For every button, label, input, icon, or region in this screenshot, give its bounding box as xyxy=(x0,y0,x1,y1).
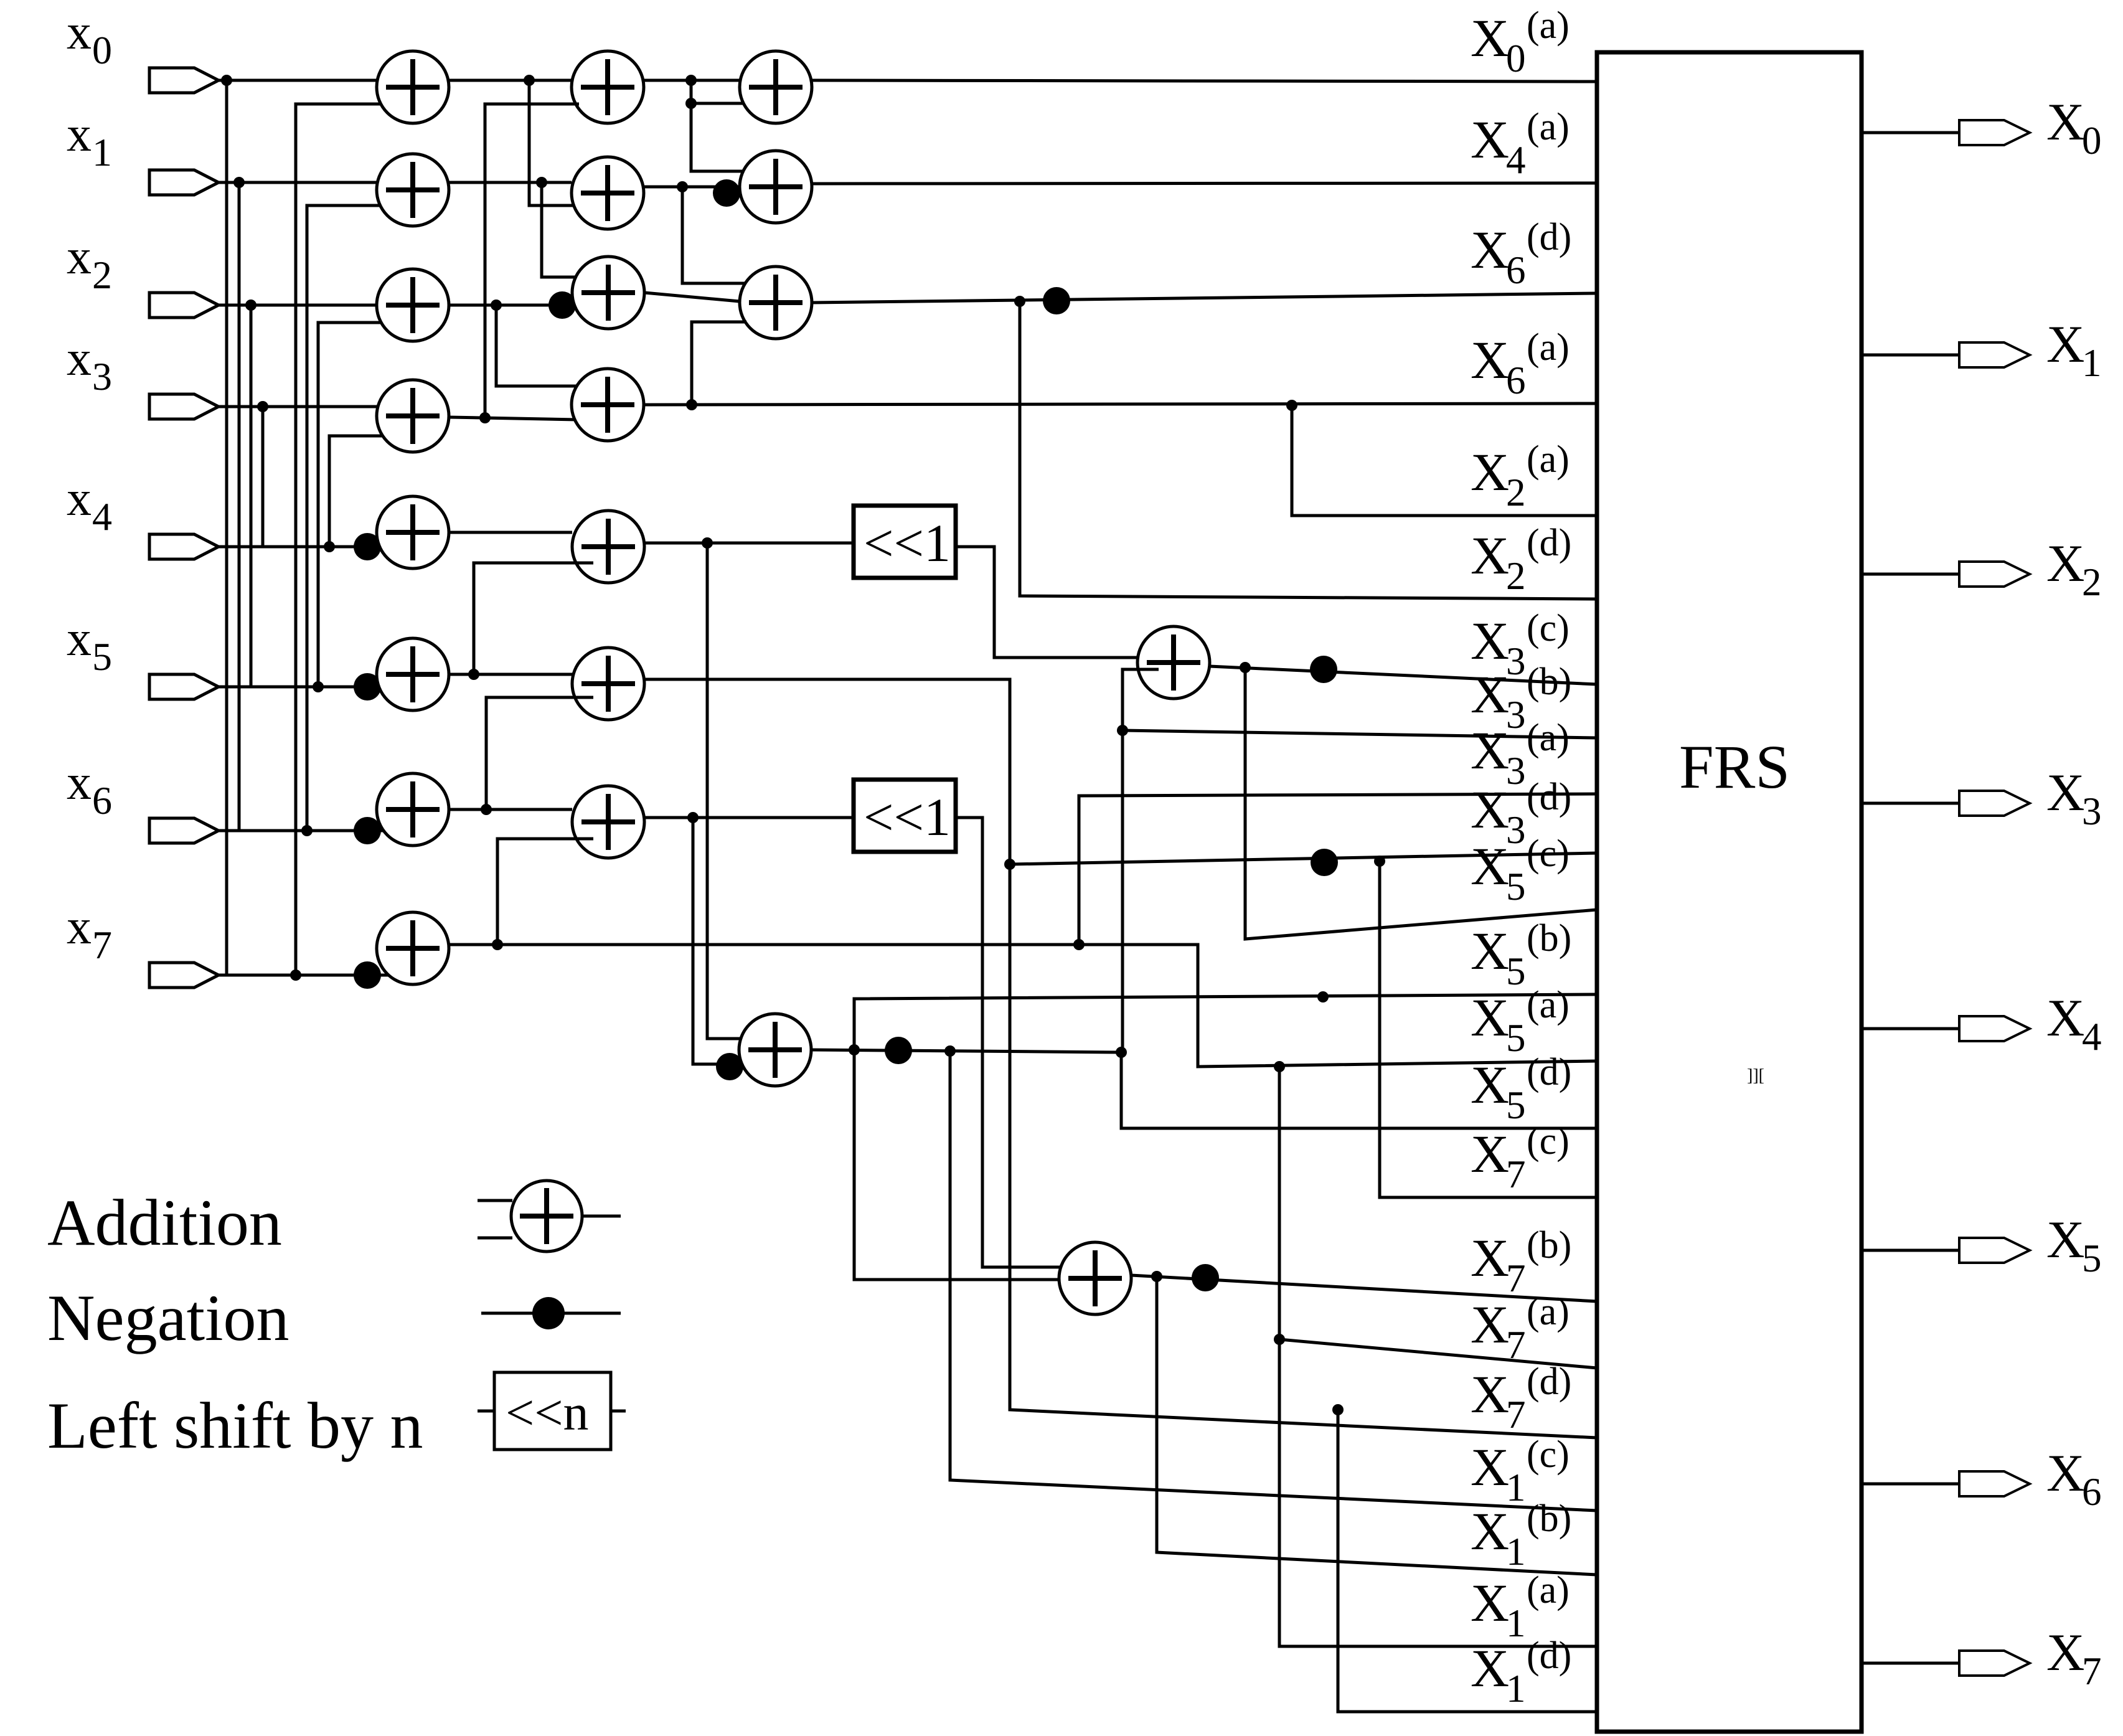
svg-text:5: 5 xyxy=(1506,1083,1526,1127)
node tap x4 xyxy=(324,541,335,552)
svg-text:(d): (d) xyxy=(1527,216,1571,258)
input arrow x1 xyxy=(149,170,219,195)
svg-text:X: X xyxy=(2046,93,2084,151)
wire row x1 xyxy=(219,181,380,184)
label X_5^(b) xyxy=(1471,917,1571,993)
wire Uc to X1b xyxy=(1157,1276,1597,1575)
adder A13 xyxy=(377,380,449,452)
svg-text:0: 0 xyxy=(1506,37,1526,80)
label x2 xyxy=(67,230,112,297)
wire row x7 xyxy=(219,974,380,977)
svg-text:(a): (a) xyxy=(1527,1291,1570,1333)
svg-text:(a): (a) xyxy=(1527,438,1570,481)
input arrow x7 xyxy=(149,963,219,988)
svg-text:x: x xyxy=(67,611,92,666)
svg-text:X: X xyxy=(1471,1295,1509,1354)
node tap x1 xyxy=(233,177,245,188)
adder Ua xyxy=(1137,626,1210,699)
output arrow X3 xyxy=(1959,791,2030,816)
svg-text:X: X xyxy=(2046,1444,2084,1502)
svg-text:Left shift by n: Left shift by n xyxy=(47,1389,423,1462)
wire a0 down to A21 xyxy=(529,80,593,205)
label X7 xyxy=(2046,1623,2102,1693)
output arrow X1 xyxy=(1959,342,2030,367)
label x4 xyxy=(67,471,112,539)
svg-text:(b): (b) xyxy=(1527,917,1571,960)
svg-text:X: X xyxy=(1471,1364,1509,1424)
node A25 d1 xyxy=(1004,859,1015,870)
svg-text:(c): (c) xyxy=(1527,607,1570,649)
svg-text:(a): (a) xyxy=(1527,326,1570,369)
adder A10 xyxy=(377,51,449,123)
svg-text:X: X xyxy=(1471,1638,1509,1698)
label FRS xyxy=(1679,732,1790,801)
wire output X1 xyxy=(1862,354,1959,357)
svg-text:0: 0 xyxy=(92,28,112,72)
svg-text:2: 2 xyxy=(1506,554,1526,598)
wire to X1d xyxy=(1338,1410,1597,1712)
adder A16 xyxy=(377,773,449,846)
legend shift box xyxy=(478,1372,626,1450)
svg-text:7: 7 xyxy=(2082,1649,2102,1693)
wire A14 out xyxy=(449,531,572,534)
node A15 out xyxy=(468,669,479,680)
node X3d branch xyxy=(1374,856,1385,867)
wire A12 out xyxy=(449,304,572,307)
legend label Negation xyxy=(47,1281,289,1354)
wire x4 to adder row x3 xyxy=(329,436,400,547)
wire b0 to A31 xyxy=(691,103,757,171)
input arrow x3 xyxy=(149,394,219,419)
wire b1 down to A22 xyxy=(542,182,590,277)
node A16 out xyxy=(481,804,492,815)
label X_3^(b) xyxy=(1471,661,1571,737)
node A21 out xyxy=(677,181,688,192)
shift box S2 xyxy=(854,780,956,852)
adder A30 xyxy=(740,51,812,123)
label X_1^(b) xyxy=(1471,1498,1571,1573)
adder A12 xyxy=(377,269,449,341)
adder A26 xyxy=(572,786,644,858)
output arrow X5 xyxy=(1959,1238,2030,1263)
negation dot X6d xyxy=(1043,287,1070,314)
svg-text:2: 2 xyxy=(2082,560,2102,604)
node tap x7 xyxy=(290,969,301,981)
negation dot Ub out xyxy=(885,1037,912,1064)
svg-text:x: x xyxy=(67,900,92,955)
wire A11 out xyxy=(449,181,572,184)
label X_7^(c) xyxy=(1471,1120,1570,1196)
svg-text:(d): (d) xyxy=(1527,522,1571,564)
legend label Addition xyxy=(47,1186,282,1259)
svg-text:X: X xyxy=(1471,1124,1509,1184)
adder Uc xyxy=(1059,1242,1131,1314)
svg-text:(d): (d) xyxy=(1527,1361,1571,1403)
svg-text:X: X xyxy=(1471,110,1509,169)
wire a7 up to A26 xyxy=(497,839,593,945)
wire row x2 xyxy=(219,304,380,307)
adder A23 xyxy=(572,369,644,441)
wire x7 to adder row x0 xyxy=(296,104,400,975)
svg-text:7: 7 xyxy=(1506,1153,1526,1196)
wire Ub out xyxy=(811,1050,1597,1128)
label X_1^(a) xyxy=(1471,1569,1570,1645)
svg-text:3: 3 xyxy=(92,354,112,399)
svg-text:2: 2 xyxy=(92,253,112,297)
wire A13 out xyxy=(449,417,578,420)
wire x1 to row x6 xyxy=(238,182,241,831)
wire row x3 xyxy=(219,405,380,408)
svg-text:(d): (d) xyxy=(1527,1635,1571,1677)
wire b1 down to A32 xyxy=(682,187,757,283)
wire A25 out xyxy=(644,679,1597,1438)
wire Ub to Uc xyxy=(854,1050,1061,1280)
svg-text:X: X xyxy=(1471,526,1509,585)
node tap x2 xyxy=(245,300,257,311)
svg-text:7: 7 xyxy=(1506,1393,1526,1436)
wire b0 to A30 xyxy=(691,80,757,103)
svg-text:5: 5 xyxy=(92,634,112,679)
svg-text:X: X xyxy=(1471,921,1509,981)
wire output X4 xyxy=(1862,1027,1959,1031)
svg-text:(a): (a) xyxy=(1527,1569,1570,1611)
wire A24 out xyxy=(644,542,854,545)
label X_3^(c) xyxy=(1471,607,1570,683)
svg-text:X: X xyxy=(2046,1210,2084,1269)
label X_2^(a) xyxy=(1471,438,1570,514)
wire A17 out xyxy=(449,945,1597,1067)
node X3a branch xyxy=(1073,939,1085,950)
svg-text:2: 2 xyxy=(1506,471,1526,514)
label x1 xyxy=(67,107,112,174)
wire X6d xyxy=(812,293,1597,303)
svg-text:(b): (b) xyxy=(1527,1498,1571,1540)
label x0 xyxy=(67,5,112,72)
wire output X0 xyxy=(1862,131,1959,134)
output arrow X2 xyxy=(1959,562,2030,587)
wire X4a xyxy=(812,183,1597,184)
node A12 out xyxy=(491,300,502,311)
node Ub out xyxy=(849,1044,860,1055)
label X_1^(d) xyxy=(1471,1635,1571,1710)
wire a2 down to A23 xyxy=(496,305,592,386)
negation dot row x5 xyxy=(354,673,381,701)
label x7 xyxy=(67,900,112,967)
wire A26 out xyxy=(644,816,854,819)
wire A16 out xyxy=(449,808,572,811)
wire x5 to adder row x2 xyxy=(318,323,400,687)
label x5 xyxy=(67,611,112,679)
label X_1^(c) xyxy=(1471,1433,1570,1509)
label X_6^(d) xyxy=(1471,216,1571,292)
legend negation symbol xyxy=(481,1297,621,1329)
input arrow x2 xyxy=(149,293,219,318)
adder A17 xyxy=(377,912,449,984)
wire output X5 xyxy=(1862,1249,1959,1252)
svg-text:6: 6 xyxy=(1506,248,1526,292)
svg-text:(c): (c) xyxy=(1527,833,1570,875)
node b0 branch xyxy=(685,98,697,109)
svg-text:X: X xyxy=(1471,1501,1509,1561)
output arrow X7 xyxy=(1959,1651,2030,1676)
svg-text:X: X xyxy=(1471,664,1509,724)
svg-text:X: X xyxy=(1471,1437,1509,1497)
label X0 xyxy=(2046,93,2102,163)
adder A15 xyxy=(377,638,449,710)
svg-text:7: 7 xyxy=(1506,1257,1526,1300)
wire to X2d xyxy=(1020,301,1597,599)
wire to X3a xyxy=(1079,794,1597,945)
svg-text:X: X xyxy=(1471,1573,1509,1633)
wire S2 out xyxy=(956,818,1081,1267)
svg-text:5: 5 xyxy=(1506,1016,1526,1060)
svg-text:X: X xyxy=(1471,1055,1509,1115)
adder A21 xyxy=(572,157,644,229)
svg-text:(d): (d) xyxy=(1527,776,1571,818)
output arrow X6 xyxy=(1959,1471,2030,1496)
node tap x3 xyxy=(257,401,268,412)
svg-text:X: X xyxy=(1471,1228,1509,1288)
wire A20 out xyxy=(644,79,740,82)
svg-text:X: X xyxy=(2046,1623,2084,1682)
svg-text:x: x xyxy=(67,331,92,386)
negation dot row x7 xyxy=(354,961,381,989)
svg-text:6: 6 xyxy=(92,778,112,823)
svg-text:X: X xyxy=(1471,988,1509,1047)
input arrow x5 xyxy=(149,674,219,699)
label X_7^(d) xyxy=(1471,1361,1571,1436)
negation dot X3c xyxy=(1310,656,1337,683)
wire A21 out xyxy=(644,186,740,189)
svg-text:5: 5 xyxy=(2082,1237,2102,1280)
svg-text:1: 1 xyxy=(92,130,112,174)
svg-text:0: 0 xyxy=(2082,119,2102,163)
svg-text:(c): (c) xyxy=(1527,1120,1570,1163)
node Ua out xyxy=(1240,662,1251,673)
svg-text:1: 1 xyxy=(1506,1530,1526,1573)
svg-text:X: X xyxy=(1471,780,1509,839)
adder A14 xyxy=(377,496,449,568)
negation dot Ub in xyxy=(716,1053,743,1080)
node A24 out xyxy=(702,537,713,549)
svg-text:5: 5 xyxy=(1506,950,1526,993)
legend adder symbol xyxy=(478,1181,621,1252)
node A11 out xyxy=(536,177,547,188)
wire b3 up to A32 xyxy=(692,322,746,405)
wire row x7 into adder xyxy=(380,974,413,977)
svg-text:x: x xyxy=(67,230,92,285)
shift box S1 xyxy=(854,506,956,578)
label x3 xyxy=(67,331,112,399)
node X7d branch xyxy=(1332,1404,1344,1415)
mark III xyxy=(1747,1066,1764,1085)
label X_4^(a) xyxy=(1471,106,1570,182)
wire Ua out xyxy=(1210,666,1597,684)
wire a5 up to A24 xyxy=(474,563,593,674)
node A26 out xyxy=(687,812,699,823)
node A13 out xyxy=(479,412,491,423)
wire X3d xyxy=(1010,853,1597,864)
wire S1 out xyxy=(956,547,1160,658)
svg-text:4: 4 xyxy=(1506,138,1526,182)
svg-text:FRS: FRS xyxy=(1679,732,1790,801)
svg-text:X: X xyxy=(1471,330,1509,390)
label X4 xyxy=(2046,989,2102,1059)
label X2 xyxy=(2046,534,2102,604)
node X3b branch xyxy=(1117,725,1128,736)
node Ub corner xyxy=(1116,1047,1127,1058)
node tap x0 xyxy=(221,75,232,86)
wire Ua to X5c xyxy=(1245,668,1597,939)
wire x0 to row x7 xyxy=(225,80,228,975)
wire to X7c xyxy=(1380,861,1597,1197)
legend label Left shift xyxy=(47,1389,423,1462)
node X7a branch xyxy=(1274,1334,1285,1345)
wire output X2 xyxy=(1862,573,1959,576)
svg-text:x: x xyxy=(67,5,92,60)
svg-text:Negation: Negation xyxy=(47,1281,289,1354)
FRS box xyxy=(1597,52,1862,1732)
wire Uc out xyxy=(1131,1275,1597,1301)
node X5b mid xyxy=(1317,991,1329,1002)
svg-text:X: X xyxy=(2046,534,2084,593)
wire A22 out xyxy=(644,293,740,301)
label X6 xyxy=(2046,1444,2102,1514)
negation dot X7b xyxy=(1192,1264,1219,1291)
wire row x5 into adder xyxy=(380,686,413,689)
label X_5^(a) xyxy=(1471,984,1570,1060)
node Uc out xyxy=(1151,1271,1162,1282)
wire Ub in upper xyxy=(707,543,760,1039)
svg-text:1: 1 xyxy=(2082,341,2102,385)
svg-text:X: X xyxy=(2046,315,2084,374)
wire output X6 xyxy=(1862,1483,1959,1486)
node A20 out xyxy=(685,75,697,86)
adder A24 xyxy=(572,511,644,583)
svg-text:(a): (a) xyxy=(1527,717,1570,759)
svg-text:X: X xyxy=(1471,220,1509,280)
wire to X1c xyxy=(950,1051,1597,1511)
svg-text:(c): (c) xyxy=(1527,1433,1570,1476)
svg-text:X: X xyxy=(2046,989,2084,1047)
wire row x4 into adder xyxy=(380,545,413,549)
output arrow X0 xyxy=(1959,120,2030,145)
wire x3 to row x4 xyxy=(261,407,265,547)
svg-text:(a): (a) xyxy=(1527,4,1570,47)
node tap x5 xyxy=(313,681,324,692)
negation dot row x4 xyxy=(354,533,381,560)
svg-text:4: 4 xyxy=(2082,1015,2102,1059)
label X1 xyxy=(2046,315,2102,385)
adder A31 xyxy=(740,151,812,223)
svg-text:<<1: <<1 xyxy=(864,513,951,573)
wire output X7 xyxy=(1862,1662,1959,1665)
adder A20 xyxy=(572,51,644,123)
svg-text:(d): (d) xyxy=(1527,1051,1571,1093)
svg-text:(b): (b) xyxy=(1527,661,1571,703)
node tap x6 xyxy=(301,825,313,836)
svg-text:7: 7 xyxy=(1506,1323,1526,1367)
label X_7^(a) xyxy=(1471,1291,1570,1367)
negation dot row x6 xyxy=(354,817,381,844)
label X5 xyxy=(2046,1210,2102,1280)
wire row x0 xyxy=(219,79,380,82)
svg-text:6: 6 xyxy=(2082,1470,2102,1514)
svg-text:3: 3 xyxy=(2082,790,2102,833)
label X3 xyxy=(2046,763,2102,833)
svg-text:1: 1 xyxy=(1506,1667,1526,1710)
label X_3^(d) xyxy=(1471,776,1571,852)
adder A22 xyxy=(572,257,644,329)
wire X3b xyxy=(1123,730,1597,738)
wire A10 out xyxy=(449,79,572,82)
negation dot A22 in xyxy=(548,291,576,319)
wire X0a xyxy=(812,80,1597,82)
svg-text:x: x xyxy=(67,107,92,162)
wire to X7a chain xyxy=(1279,1067,1597,1646)
svg-text:<<1: <<1 xyxy=(864,787,951,847)
node X6d branch xyxy=(1014,296,1025,307)
node A10 out xyxy=(524,75,535,86)
node X6a branch xyxy=(1286,400,1297,411)
label X_5^(c) xyxy=(1471,833,1570,908)
svg-text:7: 7 xyxy=(92,923,112,967)
label X_5^(d) xyxy=(1471,1051,1571,1127)
wire x6 to adder row x1 xyxy=(307,205,400,831)
svg-text:X: X xyxy=(1471,836,1509,896)
node A17 out xyxy=(492,939,503,950)
label X_0^(a) xyxy=(1471,4,1570,80)
label X_7^(b) xyxy=(1471,1224,1571,1300)
node X5a branch xyxy=(1274,1061,1285,1072)
wire row x6 xyxy=(219,829,380,833)
output arrow X4 xyxy=(1959,1016,2030,1041)
svg-text:X: X xyxy=(1471,442,1509,502)
svg-text:6: 6 xyxy=(1506,359,1526,402)
negation dot A31 in xyxy=(713,179,740,207)
wire X6a xyxy=(644,403,1597,405)
adder A25 xyxy=(572,648,644,720)
adder Ub xyxy=(739,1014,811,1086)
label X_6^(a) xyxy=(1471,326,1570,402)
wire a6 up to A25 xyxy=(486,697,593,809)
input arrow x0 xyxy=(149,68,219,93)
wire row x6 into adder xyxy=(380,829,413,833)
wire row x5 xyxy=(219,686,380,689)
svg-text:Addition: Addition xyxy=(47,1186,282,1259)
wire row x4 xyxy=(219,545,380,549)
wire to X2a xyxy=(1292,405,1597,516)
svg-text:X: X xyxy=(1471,611,1509,671)
svg-text:X: X xyxy=(1471,8,1509,68)
wire x2 to row x5 xyxy=(250,305,253,687)
adder A32 xyxy=(740,267,812,339)
wire Ua in2 xyxy=(1123,669,1159,1052)
svg-text:5: 5 xyxy=(1506,865,1526,908)
label x6 xyxy=(67,755,112,823)
svg-text:x: x xyxy=(67,471,92,526)
svg-text:]][: ]][ xyxy=(1747,1066,1764,1085)
node X1c branch xyxy=(944,1045,956,1057)
label X_3^(a) xyxy=(1471,717,1570,793)
wire to X5b xyxy=(854,994,1597,1050)
svg-text:(b): (b) xyxy=(1527,1224,1571,1267)
adder A11 xyxy=(377,154,449,226)
wire A15 out xyxy=(449,673,572,676)
wire X7a xyxy=(1279,1339,1597,1368)
label X_2^(d) xyxy=(1471,522,1571,598)
wire b3 up to A20 xyxy=(485,104,579,418)
